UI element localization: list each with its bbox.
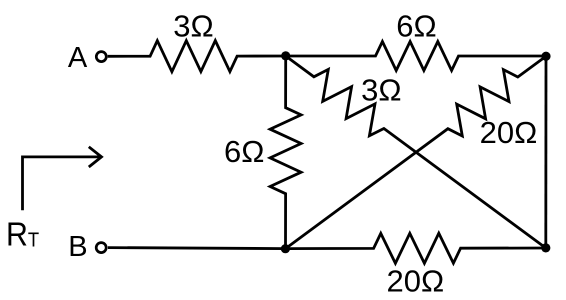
resistor R1 3ohm (top-left branch, A to node C): [108, 41, 286, 72]
wire bottom left (terminal B to node E): [108, 248, 286, 249]
terminal B (open circle): [96, 243, 106, 253]
node E (bottom middle junction dot): [281, 244, 290, 253]
svg-text:A: A: [68, 42, 88, 74]
wire right side (node D to node F): [544, 56, 547, 248]
resistor R4 3ohm (diagonal branch, node C to node F): [286, 56, 546, 248]
svg-text:RT: RT: [6, 215, 39, 252]
svg-text:B: B: [68, 231, 87, 263]
svg-text:6Ω: 6Ω: [396, 9, 436, 44]
svg-text:3Ω: 3Ω: [361, 73, 401, 108]
svg-text:20Ω: 20Ω: [480, 115, 538, 150]
terminal A (open circle): [96, 52, 106, 62]
svg-text:6Ω: 6Ω: [224, 134, 264, 169]
RT measurement arrow: [23, 157, 100, 210]
node F (bottom right junction dot): [541, 243, 550, 252]
node C (top middle junction dot): [281, 51, 290, 60]
svg-text:3Ω: 3Ω: [173, 9, 213, 44]
resistor R5 20ohm (diagonal branch, node D to node E): [286, 56, 547, 248]
resistor R3 6ohm (vertical middle branch, node C to node E): [270, 56, 301, 249]
resistor R2 6ohm (top branch, node C to node D): [286, 42, 546, 71]
resistor R6 20ohm (bottom branch, node E to node F): [286, 233, 546, 263]
node D (top right junction dot): [541, 52, 550, 61]
svg-text:20Ω: 20Ω: [386, 264, 444, 299]
